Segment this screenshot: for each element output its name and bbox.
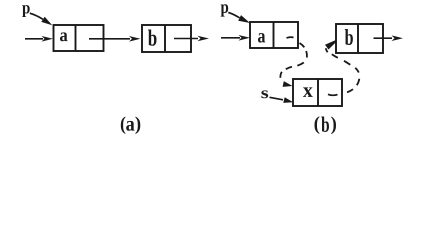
wire: dashed arrow node a to node x, curved dashed run (b): [280, 43, 307, 78]
label a in data cell (a): [60, 32, 68, 41]
node a box (b): [250, 22, 298, 48]
caption (b): [315, 116, 320, 134]
wire: pointer arrow out of node b (a): [174, 38, 198, 40]
wire: arrow from s to node x (b): [270, 97, 284, 100]
wire: dashed arrow node a to node x, dash inside pointer cell (b): [287, 36, 294, 39]
arrowhead into node b (b): [325, 40, 337, 49]
wire: pointer arrow from node a to node b (a): [89, 38, 130, 40]
wire: entry arrow into node a (a): [25, 38, 43, 40]
wire: pointer arrow out of node b (b): [374, 37, 393, 39]
wire: entry arrow into node a (b): [221, 37, 240, 39]
label b in data cell (b): [345, 29, 353, 45]
label x in data cell (b): [303, 87, 313, 96]
node x box (b): [293, 79, 342, 106]
wire: dashed arrow node x to node b, curved dashed run (b): [326, 48, 360, 92]
caption (a): [121, 116, 125, 134]
node a box (a): [54, 25, 104, 51]
node pointer label p (a): [22, 5, 30, 17]
node b box (a): [142, 25, 191, 52]
wire: curved arrow from p to node a (b): [228, 13, 239, 18]
node b box (b): [336, 24, 383, 53]
label a in data cell (b): [258, 33, 265, 43]
node pointer label p (b): [221, 4, 229, 16]
arrowhead into node x (b): [283, 81, 293, 87]
label b in data cell (a): [148, 29, 156, 45]
wire: curved arrow from p to node a (a): [30, 13, 43, 19]
wire: dashed arrow node x to node b, dash inside pointer cell (b): [328, 94, 338, 95]
node pointer label s (b): [261, 90, 268, 98]
